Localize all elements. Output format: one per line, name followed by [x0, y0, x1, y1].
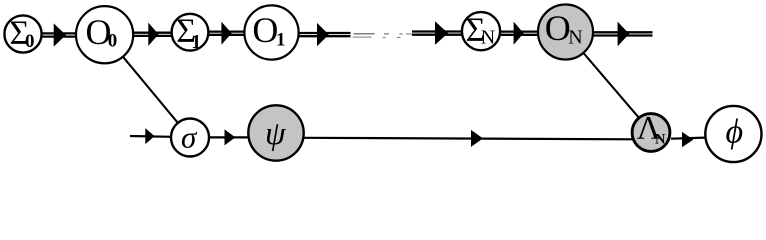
svg-text:O: O — [252, 10, 278, 50]
arrowhead LambdaN to phi — [682, 132, 693, 147]
svg-text:σ: σ — [181, 119, 198, 154]
svg-text:N: N — [481, 27, 495, 49]
node SigmaN — [462, 11, 500, 50]
wire bottom-left into sigma — [130, 135, 172, 138]
arrowhead into SigmaN — [435, 21, 448, 45]
svg-text:N: N — [568, 27, 582, 49]
node ON (shaded) — [538, 5, 593, 60]
wire double line O0 to Sigma1 — [132, 33, 172, 36]
svg-text:1: 1 — [191, 31, 201, 53]
node psi (shaded) — [248, 105, 303, 160]
arrowhead psi to LambdaN (mid wire) — [471, 130, 483, 147]
svg-text:O: O — [545, 8, 571, 48]
node O0 — [76, 6, 133, 63]
arrowhead ON rightwards — [618, 22, 630, 47]
wire double line SigmaN to ON — [501, 32, 540, 35]
svg-text:0: 0 — [108, 31, 118, 52]
arrowhead O1 rightwards — [317, 23, 329, 46]
arrowhead into sigma — [145, 128, 154, 144]
svg-text:N: N — [655, 131, 666, 147]
wire diagonal ON to LambdaN — [566, 32, 652, 133]
arrowhead SigmaN to ON — [514, 22, 524, 45]
wire LambdaN to phi — [671, 138, 705, 139]
node O1 — [244, 5, 298, 59]
svg-text:0: 0 — [25, 31, 35, 52]
node LambdaN (shaded) — [632, 111, 670, 152]
wire double line O1 rightwards — [299, 33, 351, 36]
wire diagonal O0 to sigma — [105, 35, 191, 138]
svg-text:ψ: ψ — [265, 116, 286, 152]
wire double line Sigma1 to O1 — [208, 32, 245, 35]
node sigma — [171, 119, 209, 157]
wire double line Sigma0 to O0 — [43, 33, 76, 36]
arrowhead Sigma1 to O1 — [221, 22, 231, 45]
node phi — [705, 106, 761, 162]
wire sigma to psi — [210, 136, 249, 138]
arrowhead sigma to psi — [225, 129, 236, 145]
node Sigma1 — [172, 13, 209, 54]
ellipsis dashes (faded continuation) — [353, 34, 414, 38]
arrowhead Sigma0 to O0 — [54, 23, 66, 46]
wire double line ON rightwards — [594, 32, 653, 35]
arrowhead O0 to Sigma1 — [148, 23, 158, 46]
wire double line into SigmaN — [412, 32, 462, 35]
svg-text:ϕ: ϕ — [726, 114, 744, 151]
wire psi to LambdaN — [304, 138, 633, 140]
svg-text:1: 1 — [276, 30, 286, 51]
node Sigma0 — [4, 14, 41, 52]
